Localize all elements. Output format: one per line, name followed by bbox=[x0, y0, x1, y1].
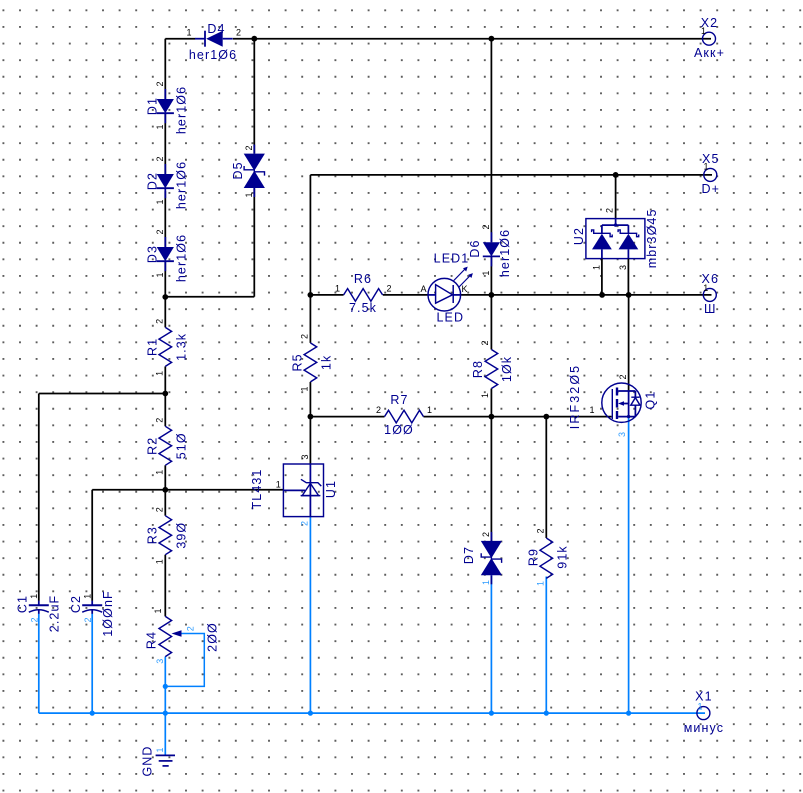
wire C1 to gnd bbox=[38, 614, 40, 714]
potentiometer R4 bbox=[145, 608, 220, 663]
resistor R8 bbox=[471, 340, 514, 398]
svg-text:LED1: LED1 bbox=[434, 251, 470, 265]
svg-text:R3: R3 bbox=[146, 526, 160, 544]
svg-text:2: 2 bbox=[155, 81, 165, 86]
wire R5 pins bbox=[309, 295, 311, 417]
svg-text:1: 1 bbox=[701, 26, 706, 36]
svg-text:1: 1 bbox=[155, 747, 165, 752]
svg-text:91k: 91k bbox=[556, 545, 570, 568]
wire D6 to LED row bbox=[490, 256, 492, 295]
junction U2 pin3 on Sh row bbox=[626, 292, 632, 298]
svg-text:her1Ø6: her1Ø6 bbox=[175, 86, 189, 134]
svg-text:2: 2 bbox=[155, 319, 165, 324]
svg-text:2: 2 bbox=[155, 156, 165, 161]
connector X5 D+ bbox=[702, 152, 721, 196]
svg-text:K: K bbox=[461, 284, 467, 294]
svg-text:1: 1 bbox=[589, 405, 594, 415]
wire ref node row bbox=[92, 490, 283, 601]
svg-text:2: 2 bbox=[186, 626, 196, 631]
op-amp U1 TL431 shunt regulator bbox=[250, 454, 338, 526]
svg-text:R2: R2 bbox=[146, 437, 160, 455]
svg-text:3: 3 bbox=[155, 659, 165, 664]
diode D5 suppressor bbox=[231, 145, 265, 198]
svg-text:1: 1 bbox=[481, 271, 491, 276]
diode D3 bbox=[146, 229, 189, 282]
transistor Q1 IRF3205 bbox=[568, 364, 657, 437]
svg-text:R7: R7 bbox=[390, 393, 408, 407]
junction R6 row left bbox=[308, 292, 314, 298]
svg-text:mbr3Ø45: mbr3Ø45 bbox=[645, 208, 659, 268]
svg-text:2: 2 bbox=[481, 224, 491, 229]
resistor R2 bbox=[146, 418, 189, 475]
svg-text:1: 1 bbox=[536, 581, 546, 586]
svg-text:1: 1 bbox=[592, 265, 602, 270]
wire D6 column top bbox=[490, 39, 492, 243]
wire D7 to gnd bbox=[490, 575, 492, 713]
junction ref node bbox=[162, 487, 168, 493]
resistor R7 bbox=[376, 393, 432, 437]
resistor R5 bbox=[291, 334, 334, 392]
svg-text:2: 2 bbox=[236, 28, 241, 38]
svg-text:1: 1 bbox=[427, 405, 432, 415]
svg-text:2: 2 bbox=[480, 340, 490, 345]
svg-text:2: 2 bbox=[376, 405, 381, 415]
svg-text:Q1: Q1 bbox=[643, 391, 657, 410]
svg-text:2: 2 bbox=[300, 334, 310, 339]
junction gnd D7 bbox=[489, 711, 494, 716]
wire D1-D2-D3 chain column bbox=[164, 39, 166, 297]
resistor R6 bbox=[335, 272, 392, 315]
connector X2 Akk+ bbox=[694, 16, 725, 60]
svg-text:C2: C2 bbox=[69, 595, 83, 613]
junction R8-D7 gate row bbox=[489, 414, 495, 420]
svg-text:1: 1 bbox=[335, 284, 340, 294]
wire D5 branch bottom bbox=[165, 188, 254, 296]
wire R4 wiper return bbox=[165, 634, 204, 687]
wire D7 top bbox=[490, 417, 492, 542]
connector X1 minus bbox=[684, 690, 724, 735]
svg-text:минус: минус bbox=[684, 721, 724, 735]
svg-text:C1: C1 bbox=[16, 595, 30, 613]
junction gnd R9 bbox=[544, 711, 549, 716]
wire gate row left bbox=[310, 416, 384, 418]
svg-text:D+: D+ bbox=[702, 182, 721, 196]
svg-text:2: 2 bbox=[481, 532, 491, 537]
svg-text:7.5k: 7.5k bbox=[349, 301, 377, 315]
wire LED to net Sh bbox=[460, 294, 712, 296]
svg-text:1: 1 bbox=[155, 272, 165, 277]
svg-text:1: 1 bbox=[703, 283, 708, 293]
junction below D3 bbox=[162, 294, 168, 300]
svg-text:1: 1 bbox=[153, 608, 163, 613]
diode D2 bbox=[146, 156, 189, 209]
svg-text:LED: LED bbox=[436, 311, 464, 325]
svg-text:D4: D4 bbox=[207, 22, 225, 36]
svg-text:1: 1 bbox=[155, 371, 165, 376]
svg-text:IRF32Ø5: IRF32Ø5 bbox=[568, 364, 582, 429]
diode D1 bbox=[146, 81, 189, 134]
svg-text:2: 2 bbox=[83, 617, 93, 622]
svg-text:2: 2 bbox=[244, 145, 254, 150]
junction R5-R7 gate row bbox=[308, 414, 314, 420]
junction U2 pin1 on Sh row bbox=[599, 292, 605, 298]
LED LED1 bbox=[420, 251, 472, 324]
svg-text:2: 2 bbox=[155, 418, 165, 423]
junction D5 top bbox=[251, 36, 257, 42]
connector X6 Sh bbox=[702, 272, 720, 316]
wire net D+ row bbox=[310, 174, 712, 176]
svg-text:D3: D3 bbox=[146, 245, 160, 263]
diode D4 bbox=[186, 22, 241, 62]
wire gnd symbol stub bbox=[164, 713, 166, 755]
junction R9 gate row bbox=[543, 414, 549, 420]
diode U2 mbr3045 dual schottky bbox=[572, 208, 659, 295]
resistor R9 bbox=[527, 528, 570, 586]
wire D+ corner down to LED row bbox=[309, 175, 311, 295]
svg-text:2: 2 bbox=[536, 528, 546, 533]
svg-text:Акк+: Акк+ bbox=[694, 46, 725, 60]
svg-text:1: 1 bbox=[155, 199, 165, 204]
svg-text:GND: GND bbox=[141, 745, 155, 776]
wire R3 pins bbox=[164, 490, 166, 617]
wire gnd bus bbox=[39, 712, 705, 714]
capacitor C1 bbox=[16, 594, 62, 633]
svg-text:3: 3 bbox=[617, 432, 627, 437]
junction gnd U1 bbox=[308, 711, 313, 716]
wire R8 pins bbox=[490, 295, 492, 417]
wire D5 branch top bbox=[253, 39, 255, 154]
svg-text:3: 3 bbox=[618, 265, 628, 270]
svg-text:R8: R8 bbox=[471, 360, 485, 378]
svg-text:D5: D5 bbox=[231, 161, 245, 179]
resistor R1 bbox=[146, 319, 189, 376]
svg-text:1: 1 bbox=[480, 393, 490, 398]
wire net Akk+ top rail bbox=[165, 38, 711, 40]
svg-text:2: 2 bbox=[155, 229, 165, 234]
svg-text:R4: R4 bbox=[145, 631, 159, 649]
svg-text:R5: R5 bbox=[291, 353, 305, 371]
wire C2 to gnd bbox=[91, 614, 93, 714]
junction gnd C2 bbox=[90, 711, 95, 716]
junction U2 pin2 on D+ rail bbox=[613, 172, 619, 178]
svg-text:2: 2 bbox=[30, 617, 40, 622]
wire junction R1 to C1 branch bbox=[39, 394, 166, 601]
capacitor C2 bbox=[69, 590, 115, 637]
svg-text:2.2uF: 2.2uF bbox=[48, 595, 62, 632]
resistor R3 bbox=[146, 507, 189, 564]
wire Q1 drain bbox=[628, 295, 630, 391]
svg-text:D1: D1 bbox=[146, 97, 160, 115]
svg-text:3: 3 bbox=[300, 454, 310, 459]
svg-text:her1Ø6: her1Ø6 bbox=[189, 48, 237, 62]
svg-text:R9: R9 bbox=[527, 548, 541, 566]
svg-text:39Ø: 39Ø bbox=[175, 522, 189, 549]
svg-text:1: 1 bbox=[300, 386, 310, 391]
ground bbox=[141, 745, 176, 776]
wire R6 to LED bbox=[383, 294, 429, 296]
svg-text:1: 1 bbox=[155, 124, 165, 129]
diode D6 bbox=[468, 224, 512, 277]
svg-text:1: 1 bbox=[697, 702, 702, 712]
wire R9 to gnd bbox=[545, 577, 547, 714]
svg-text:2: 2 bbox=[618, 374, 628, 379]
svg-text:1.3k: 1.3k bbox=[175, 333, 189, 361]
wire R9 top bbox=[545, 417, 547, 538]
wire Q1 source to gnd bbox=[628, 417, 630, 713]
svg-text:TL431: TL431 bbox=[250, 469, 264, 510]
svg-text:2ØØ: 2ØØ bbox=[206, 622, 220, 652]
svg-text:2: 2 bbox=[300, 521, 310, 526]
wire R4 bottom to gnd bbox=[164, 657, 166, 714]
svg-text:51Ø: 51Ø bbox=[175, 432, 189, 459]
svg-text:1: 1 bbox=[82, 594, 92, 599]
svg-text:R1: R1 bbox=[146, 338, 160, 356]
svg-text:D2: D2 bbox=[146, 172, 160, 190]
svg-text:D6: D6 bbox=[468, 239, 482, 257]
svg-text:2: 2 bbox=[605, 208, 615, 213]
svg-text:1: 1 bbox=[155, 559, 165, 564]
svg-text:1: 1 bbox=[186, 28, 191, 38]
svg-text:U2: U2 bbox=[572, 227, 586, 245]
svg-text:1: 1 bbox=[703, 162, 708, 172]
wire gate row right bbox=[424, 416, 612, 418]
junction gnd Q1 bbox=[626, 711, 631, 716]
junction D6 top bbox=[489, 36, 495, 42]
svg-text:U1: U1 bbox=[324, 480, 338, 498]
svg-text:her1Ø6: her1Ø6 bbox=[175, 234, 189, 282]
svg-text:1: 1 bbox=[276, 480, 281, 490]
svg-text:1: 1 bbox=[481, 580, 491, 585]
junction D6-R8 on LED row bbox=[489, 292, 495, 298]
svg-text:1: 1 bbox=[29, 594, 39, 599]
wire U2 pin2 drop bbox=[615, 175, 617, 219]
wire R2 pins bbox=[164, 394, 166, 490]
svg-text:A: A bbox=[420, 284, 426, 294]
wire U1 cathode drop bbox=[309, 417, 311, 464]
svg-text:2: 2 bbox=[386, 284, 391, 294]
svg-text:her1Ø6: her1Ø6 bbox=[498, 229, 512, 277]
svg-text:D7: D7 bbox=[462, 546, 476, 564]
wire R1 pins bbox=[164, 297, 166, 394]
svg-text:1: 1 bbox=[244, 192, 254, 197]
diode D7 suppressor bbox=[462, 532, 502, 585]
svg-text:1Øk: 1Øk bbox=[500, 356, 514, 382]
svg-text:1ØØnF: 1ØØnF bbox=[101, 590, 115, 637]
svg-text:1: 1 bbox=[155, 470, 165, 475]
junction gnd R4 bbox=[163, 711, 168, 716]
svg-text:Ш: Ш bbox=[704, 302, 717, 316]
svg-text:1k: 1k bbox=[320, 355, 334, 370]
wire LED row left bbox=[310, 294, 343, 296]
svg-text:2: 2 bbox=[155, 507, 165, 512]
svg-text:1ØØ: 1ØØ bbox=[384, 423, 414, 437]
svg-text:R6: R6 bbox=[354, 272, 372, 286]
wire U1 anode to gnd bbox=[309, 517, 311, 714]
junction R4 wiper return bbox=[163, 684, 168, 689]
svg-text:her1Ø6: her1Ø6 bbox=[175, 161, 189, 209]
junction R1-R2 left branch bbox=[162, 391, 168, 397]
